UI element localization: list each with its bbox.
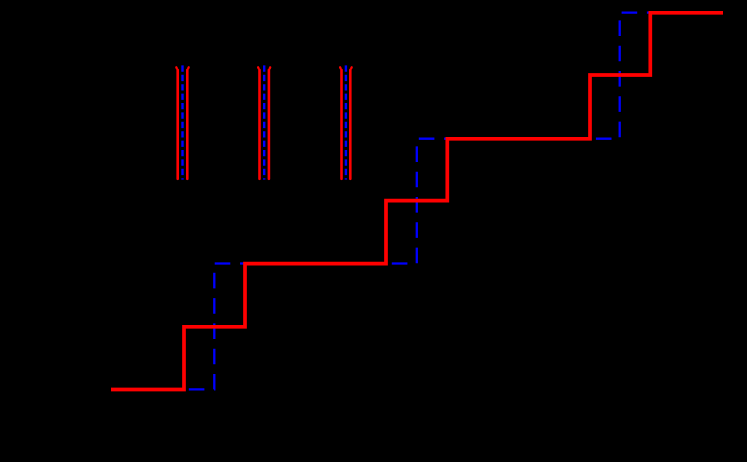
- spike 2: right red density line: [269, 67, 272, 68]
- spike 1: right red density line: [187, 67, 190, 68]
- spike 3: left red density line: [339, 67, 342, 68]
- spike 3: right red density line: [350, 67, 353, 68]
- spike 1: left red density line: [175, 67, 178, 68]
- spike 2: blue dashed center line: [263, 65, 265, 179]
- spike 3: blue dashed center line: [345, 65, 347, 179]
- spike 1: blue dashed center line: [181, 65, 183, 179]
- spike 2: left red density line: [257, 67, 260, 68]
- red solid CDF staircase: [111, 13, 723, 390]
- blue dashed CDF staircase: [111, 13, 723, 390]
